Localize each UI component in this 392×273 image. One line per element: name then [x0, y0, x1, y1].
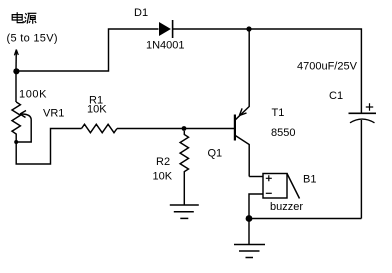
- capacitor C1: [349, 112, 377, 114]
- svg-text:1N4001: 1N4001: [146, 40, 185, 52]
- junction dot: VR1 bottom: [14, 140, 18, 144]
- svg-text:10K: 10K: [153, 171, 173, 183]
- potentiometer VR1 body: [15, 71, 17, 102]
- wire: VR1 to R1: [16, 129, 81, 165]
- resistor R2: [180, 131, 188, 205]
- junction dot: base node: [182, 126, 187, 131]
- svg-text:buzzer: buzzer: [270, 201, 303, 213]
- power input arrow: [15, 50, 17, 72]
- ground under R2: [170, 204, 199, 206]
- wire: R1 to T1 base: [117, 128, 235, 130]
- buzzer minus terminal wire: [249, 194, 263, 219]
- junction dot: power node: [13, 68, 19, 74]
- wire: ground node to C1 bottom: [249, 218, 361, 220]
- svg-text:D1: D1: [134, 7, 148, 19]
- svg-text:C1: C1: [329, 90, 343, 102]
- T1 collector: [235, 136, 249, 177]
- svg-text:Q1: Q1: [208, 148, 223, 160]
- main ground symbol: [248, 219, 250, 245]
- buzzer plus sign: [266, 175, 272, 181]
- wire: power node to diode anode: [16, 29, 159, 71]
- wire: diode cathode to C1 top: [173, 29, 362, 113]
- svg-text:T1: T1: [272, 107, 285, 119]
- transistor T1 bar: [234, 115, 236, 141]
- svg-text:10K: 10K: [87, 104, 107, 116]
- svg-text:4700uF/25V: 4700uF/25V: [297, 61, 358, 73]
- buzzer minus sign: [266, 192, 272, 194]
- buzzer leader line: [287, 174, 300, 199]
- label 电源 (power) drawn as strokes: [12, 12, 36, 24]
- svg-text:(5 to 15V): (5 to 15V): [7, 33, 58, 45]
- svg-text:B1: B1: [303, 174, 316, 186]
- junction dot: ground node: [246, 215, 253, 222]
- svg-text:8550: 8550: [271, 127, 295, 139]
- resistor R1: [82, 124, 118, 132]
- diode D1: [159, 22, 171, 36]
- C1 plus sign: [366, 103, 373, 110]
- svg-text:R2: R2: [156, 156, 170, 168]
- VR1 wiper arrow: [16, 114, 31, 142]
- T1 emitter arrow: [239, 108, 246, 115]
- junction dot: top node: [246, 26, 251, 31]
- svg-text:100K: 100K: [19, 89, 47, 101]
- buzzer B1 box: [263, 174, 287, 199]
- T1 emitter wire from top node: [235, 29, 249, 120]
- buzzer plus terminal wire: [249, 176, 263, 178]
- svg-text:VR1: VR1: [43, 108, 64, 120]
